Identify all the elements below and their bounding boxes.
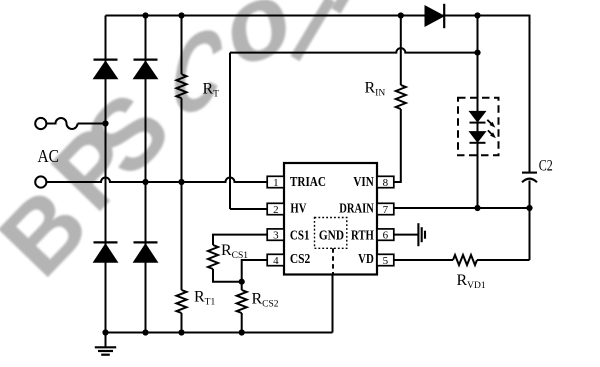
wire GND to rail	[332, 275, 334, 333]
wire CS1 to pin 3	[213, 235, 267, 245]
node RT / triac wire	[178, 179, 184, 185]
svg-text:AC: AC	[38, 146, 60, 166]
wire RT leg lower	[181, 313, 183, 333]
svg-text:6: 6	[383, 229, 389, 241]
node drain / C2	[526, 205, 532, 211]
svg-text:RT1: RT1	[194, 289, 215, 308]
wire VD pin 5	[394, 259, 453, 261]
wire bridge leg 1	[105, 16, 107, 333]
ground earth (bridge)	[105, 333, 107, 347]
pin 6 box	[377, 229, 394, 240]
wire GND dashed inside IC	[332, 248, 334, 274]
svg-text:VIN: VIN	[353, 175, 373, 190]
svg-text:C: C	[164, 4, 230, 140]
svg-text:RCS2: RCS2	[252, 291, 279, 310]
ground RTH	[417, 223, 419, 246]
resistor RCS1	[208, 245, 218, 269]
svg-text:VD: VD	[358, 252, 374, 267]
svg-text:7: 7	[383, 204, 389, 216]
wire RIN upper	[400, 16, 402, 86]
wire HV to pin 2	[230, 208, 267, 210]
wire VD right	[477, 259, 530, 261]
svg-text:RTH: RTH	[351, 228, 374, 243]
svg-text:5: 5	[383, 255, 389, 267]
wire RCS2 tail	[241, 282, 243, 333]
node rail leg1 bottom	[102, 329, 108, 335]
resistor RVD1	[453, 255, 477, 265]
node HV top / LED	[474, 50, 480, 56]
svg-text:DRAIN: DRAIN	[339, 201, 374, 216]
wire RT leg middle	[181, 98, 183, 290]
pin 2 box	[267, 203, 284, 214]
node rail LED	[474, 12, 480, 18]
diode D1	[94, 61, 118, 78]
wire top rail	[106, 15, 530, 17]
wire RCS1 bottom	[213, 269, 242, 282]
wire bridge leg 2	[145, 16, 147, 333]
svg-text:RCS1: RCS1	[221, 242, 248, 261]
LED2 emission arrow	[488, 130, 493, 135]
svg-text:CS2: CS2	[290, 252, 310, 267]
diode D4	[134, 244, 158, 262]
LED1	[470, 111, 486, 121]
svg-text:CS1: CS1	[290, 228, 310, 243]
svg-text:2: 2	[273, 204, 279, 216]
LED dashed box	[458, 98, 499, 156]
svg-text:8: 8	[383, 177, 389, 189]
wire RIN to pin 8	[394, 109, 401, 182]
pin 7 box	[377, 203, 394, 214]
node rail leg2	[142, 12, 148, 18]
LED1 emission arrow	[487, 120, 492, 125]
diode D2	[134, 61, 158, 78]
pin 4 box	[267, 254, 284, 265]
node rail RT	[178, 12, 184, 18]
svg-text:o: o	[217, 0, 298, 92]
svg-text:1: 1	[273, 177, 279, 189]
watermark	[0, 0, 352, 297]
node rail RIN	[398, 12, 404, 18]
pin 8 box	[377, 176, 394, 187]
op-amp U1 body	[284, 163, 377, 275]
node AC live / leg1	[102, 120, 108, 126]
svg-text:RIN: RIN	[365, 80, 386, 99]
resistor RIN	[396, 85, 406, 109]
wire drain pin 7	[394, 207, 530, 209]
diode D5	[425, 6, 444, 26]
node rail RT1 bottom	[178, 329, 184, 335]
wire AC neutral lead with hops	[46, 178, 267, 182]
node LED / drain	[474, 205, 480, 211]
diode D3	[94, 244, 118, 262]
GND dotted box	[315, 218, 347, 249]
wire RTH pin 6	[394, 234, 419, 236]
wire bottom rail	[106, 332, 333, 334]
terminal AC live	[35, 118, 46, 129]
node rail RCS2 bottom	[239, 329, 245, 335]
wire C2 branch lower	[529, 181, 531, 261]
node RCS1 / RCS2	[239, 279, 245, 285]
capacitor C2	[522, 172, 537, 174]
pin 5 box	[377, 254, 394, 265]
svg-text:HV: HV	[290, 201, 306, 216]
wire RT leg upper	[181, 16, 183, 75]
wire HV vertical	[229, 53, 231, 209]
svg-text:4: 4	[273, 255, 279, 267]
svg-text:TRIAC: TRIAC	[290, 175, 326, 190]
svg-text:GND: GND	[319, 229, 344, 244]
resistor RCS2	[237, 290, 247, 313]
resistor RT	[177, 74, 187, 98]
LED2	[470, 132, 486, 142]
wire C2 branch upper	[529, 15, 531, 173]
resistor RT1	[177, 290, 187, 313]
svg-text:RVD1: RVD1	[457, 272, 486, 291]
wire LED branch	[477, 16, 479, 209]
node AC neutral / leg2	[142, 179, 148, 185]
svg-text:3: 3	[273, 229, 279, 241]
pin 1 box	[267, 176, 284, 187]
pin 3 box	[267, 229, 284, 240]
wire CS2 to pin 4	[242, 260, 268, 282]
svg-text:C2: C2	[539, 158, 553, 175]
wire AC live lead	[46, 118, 105, 129]
node rail leg2 bottom	[142, 329, 148, 335]
wire HV top	[230, 48, 478, 53]
terminal AC neutral	[35, 176, 46, 187]
